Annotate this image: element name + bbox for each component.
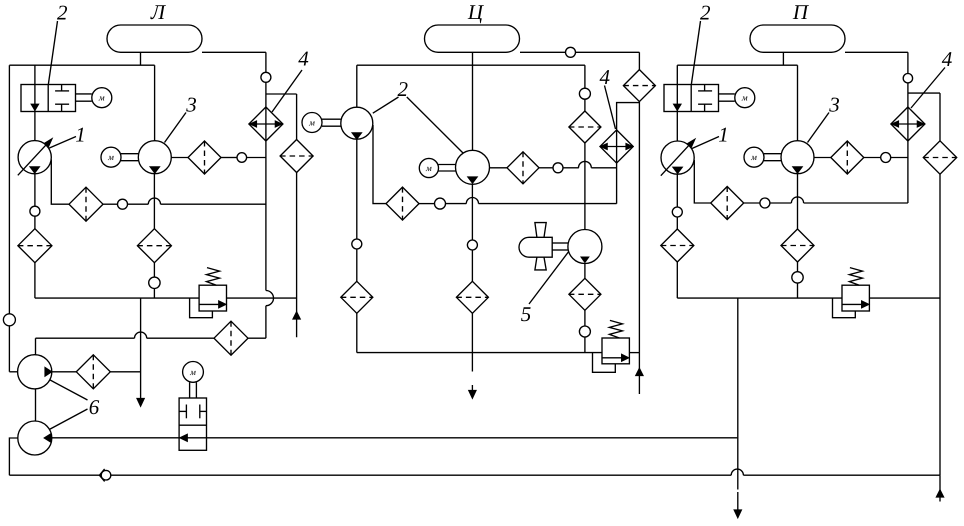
svg-text:3: 3 — [185, 93, 197, 117]
filter on main riser C — [623, 70, 655, 102]
port circle pump 3 drain — [149, 277, 160, 288]
bottom valve upper cell closed symbol — [185, 405, 187, 419]
relief bus P left part — [677, 297, 842, 299]
wire pump 6a to pump 6b — [35, 389, 37, 421]
wire filter to drain tee — [110, 371, 140, 373]
bottom valve lower cell flow arrow — [179, 437, 206, 439]
wire filter riser P down to return bus — [939, 174, 941, 475]
relief bus P right part — [869, 297, 940, 299]
component 4 reversing unit (left) — [249, 107, 283, 141]
valve 2 (right section) — [664, 85, 719, 112]
wire tank P right to main riser — [845, 51, 908, 53]
wire through component 4 (middle) — [616, 130, 618, 204]
wire filter to relief bus — [34, 263, 36, 298]
wire valve stem upper P — [676, 65, 678, 84]
port circle pump 1P drain — [672, 207, 682, 217]
branch to filter riser L — [266, 93, 297, 95]
shaft bottom valve to motor — [189, 382, 191, 398]
filter on pump 2b output — [507, 152, 539, 184]
valve 2 (left section) — [21, 85, 76, 112]
valve 2 left cell flow line with arrow — [34, 85, 36, 112]
component 4 reversing unit (middle) — [600, 130, 633, 163]
wire top frame edge P — [677, 64, 797, 66]
wire pump 3 drain — [153, 174, 155, 229]
filter below motor 5 — [569, 278, 601, 310]
wire tank L right to main riser — [202, 51, 266, 53]
wire pump 2a top — [356, 65, 358, 107]
leader line label 4 (middle) — [605, 86, 616, 130]
wire circle to main riser P — [891, 157, 908, 159]
wire circle to hop — [770, 202, 792, 204]
motor of bottom valve — [183, 362, 204, 383]
motor of pump 3 — [101, 147, 121, 167]
wire hop to component 4 stem — [479, 203, 617, 205]
drain line L from bus — [140, 298, 142, 398]
svg-text:м: м — [308, 118, 315, 128]
wire circle to filter — [34, 216, 36, 229]
motor of valve 2P — [735, 88, 755, 108]
svg-text:6: 6 — [89, 395, 100, 419]
svg-text:4: 4 — [298, 47, 309, 71]
wire pump 1P drain down — [676, 174, 678, 207]
relief valve middle section — [602, 338, 629, 364]
leader line label 6 to pump 6a — [50, 380, 88, 400]
wire pump 6b left elbow down — [9, 438, 17, 475]
drain arrow C — [471, 385, 473, 391]
pump 3 — [138, 141, 171, 174]
up arrow on suction stub L — [293, 312, 300, 319]
leader line label 3P — [808, 113, 830, 143]
port circle on tank C line — [566, 47, 576, 57]
wire pump 2a right side down — [373, 125, 386, 204]
port circle below motor 5 — [579, 326, 590, 337]
leader label 2 to pump 2a — [373, 97, 399, 113]
pump 1 (right, variable displacement) — [661, 141, 694, 174]
port circle on left frame — [3, 314, 15, 326]
pump 2a — [341, 107, 373, 139]
check valve on return bus — [101, 470, 111, 480]
shaft fan to motor 5 — [552, 242, 568, 244]
motor of pump 2b — [419, 158, 438, 177]
wire pump 1 drain down — [34, 174, 36, 206]
leader line label 5 — [529, 251, 569, 304]
main riser C top — [638, 52, 640, 69]
wire tank L to frame — [140, 52, 142, 65]
wire filter to circle — [864, 157, 881, 159]
variable arrow of pump 1 — [18, 141, 50, 175]
hop main riser over relief bus — [266, 291, 274, 306]
drain line P from bus to bottom — [737, 298, 739, 489]
long return bus right — [743, 474, 939, 476]
hop over pump 3P drain — [791, 197, 803, 203]
wire filter to circle — [419, 203, 435, 205]
long return bus lower left — [9, 474, 101, 476]
shaft pump 2a motor — [322, 118, 341, 120]
wire filter to fan motor — [584, 143, 586, 230]
component 5 fan drive motor — [568, 230, 602, 264]
svg-text:5: 5 — [521, 302, 532, 326]
top frame edge C — [357, 64, 585, 66]
relief bus L left part — [35, 297, 199, 299]
wire top edge to pump 3 — [154, 65, 156, 141]
pump 2b — [456, 150, 490, 184]
wire filter to circle — [539, 167, 553, 169]
shaft pump 3P motor — [764, 153, 781, 155]
wire hop to main riser — [161, 203, 266, 205]
filter on pump 6a output — [76, 355, 110, 389]
branch to component 4 (middle) — [617, 103, 640, 130]
wire circle to bus P — [797, 283, 799, 298]
svg-text:1: 1 — [718, 123, 729, 147]
wire hop to component 4 stem — [591, 167, 616, 169]
filter on pump 2a output — [386, 187, 419, 220]
leader line label 2 — [48, 21, 57, 84]
svg-text:м: м — [107, 152, 114, 162]
wire filter to circle — [584, 310, 586, 326]
filter on pump 2b drain — [456, 281, 488, 313]
svg-text:2: 2 — [57, 1, 68, 25]
variable arrow of pump 1P — [661, 142, 693, 176]
svg-text:Л: Л — [150, 0, 167, 24]
port circle on pump 1 drain — [30, 206, 40, 216]
wire pump 2b drain — [471, 184, 473, 240]
port circle pump 3P output — [881, 153, 891, 163]
filter on pump 3P output — [831, 141, 864, 174]
wire filter to relief bus P — [676, 262, 678, 298]
port circle pump 1P output — [760, 198, 770, 208]
wire filter to circle — [221, 157, 237, 159]
port circle pump 2b output — [553, 163, 563, 173]
wire hop to corner — [36, 337, 135, 339]
wire pump 2a drain down — [356, 139, 358, 239]
main riser P middle — [907, 83, 909, 203]
wire pump 3P drain — [797, 174, 799, 229]
leader line label 4 — [272, 70, 302, 112]
wire filter to circle — [744, 202, 760, 204]
drain arrow P — [734, 510, 741, 518]
filter on pump 1P drain — [661, 229, 694, 262]
port circle pump 3P drain — [792, 272, 803, 283]
wire top edge to pump 3P — [797, 65, 799, 141]
wire circle to bus C — [584, 337, 586, 353]
port circle mid riser C — [579, 88, 590, 99]
wire valve 2P to pump 1P — [676, 112, 678, 141]
leader line label 2P — [691, 21, 700, 84]
long suction bus upper — [52, 437, 738, 439]
filter on pump 1 drain — [18, 229, 52, 263]
shaft valve 2P to motor — [719, 93, 735, 95]
svg-text:м: м — [189, 367, 196, 377]
wire branch down to filter — [296, 94, 298, 140]
leader line label 6 to pump 6b — [50, 409, 88, 429]
pilot line of relief valve right section — [833, 298, 856, 318]
port circle pump 2a output — [435, 198, 446, 209]
wire tank C right part 2 — [576, 51, 640, 53]
wire filter to circle — [153, 263, 155, 277]
wire filter down to suction end — [296, 173, 298, 338]
hop over pump3 drain — [148, 198, 160, 204]
pump 6b — [18, 421, 52, 455]
wire circle to filter — [676, 217, 678, 229]
svg-text:3: 3 — [828, 93, 840, 117]
svg-text:4: 4 — [942, 47, 953, 71]
wire pump 6a output — [52, 371, 77, 373]
wire valve 2 to pump 1 — [34, 112, 36, 141]
wire filter to hop — [147, 337, 214, 339]
wire right mid riser C top — [584, 65, 586, 88]
leader line label 1P — [692, 137, 719, 149]
wire circle to filter — [584, 99, 586, 111]
wire circle to hop — [128, 203, 149, 205]
main riser L upper — [265, 52, 267, 72]
wire filter to port circle — [103, 203, 118, 205]
shaft valve 2 to motor — [76, 93, 92, 95]
wire main riser to cooler line corner — [265, 306, 267, 339]
wire circle to hop — [446, 203, 467, 205]
pilot line of relief valve middle section — [593, 353, 616, 373]
svg-text:м: м — [425, 163, 432, 173]
motor of pump 2a — [302, 113, 322, 133]
tank C (air reservoir) — [425, 25, 520, 52]
hop over pump 2b drain — [466, 197, 478, 203]
port circle on pump1 output line — [118, 199, 128, 209]
leader line label 3 — [165, 113, 187, 143]
filter on mid riser C — [569, 111, 601, 143]
filter on pump 1P output — [711, 187, 744, 220]
relief bus C left part — [357, 352, 602, 354]
wire filter to bus C — [356, 313, 358, 352]
svg-text:м: м — [750, 152, 757, 162]
shaft pump 3 motor — [121, 153, 138, 155]
main riser P upper — [907, 52, 909, 73]
wire circle to filter — [356, 249, 358, 281]
component 4 reversing unit (right) — [891, 107, 925, 141]
hop over drain line L — [135, 332, 147, 338]
filter on cooler return — [214, 321, 248, 355]
relief bus C right part — [629, 352, 639, 354]
relief valve right section — [842, 285, 869, 311]
motor of pump 3P — [744, 147, 764, 167]
stub frame to pump 6a — [9, 371, 17, 373]
svg-text:2: 2 — [700, 1, 711, 25]
spring of relief valve left section — [207, 268, 220, 286]
pilot line of relief valve left section — [190, 298, 213, 318]
svg-text:П: П — [792, 0, 810, 24]
wire circle to hop — [563, 167, 579, 169]
wire branch down to filter P — [939, 93, 941, 141]
port circle main riser P — [903, 74, 912, 83]
leader line label 4P — [911, 68, 945, 109]
relief bus L right part — [227, 297, 297, 299]
port circle main riser L — [261, 72, 271, 82]
valve 2 right cell closed symbol — [55, 90, 69, 92]
wire filter to circle — [797, 262, 799, 272]
tank P (air reservoir) — [750, 25, 845, 52]
filter on pump 3 output — [188, 141, 221, 174]
svg-text:м: м — [741, 93, 748, 103]
main riser C down to bus — [638, 102, 640, 353]
spring of relief valve right section — [849, 268, 862, 286]
valve 2P left cell flow line with arrow — [676, 85, 678, 112]
pump 3 (right) — [781, 141, 814, 174]
filter on branch riser P — [923, 141, 956, 174]
wire pump 1P right side down — [694, 160, 710, 203]
suction stub P with up arrow — [939, 475, 941, 501]
filter on pump 1 output — [69, 187, 103, 221]
port circle pump 2b drain — [467, 240, 477, 250]
wire pump 3P output — [814, 157, 831, 159]
leader line label 1 — [49, 137, 76, 149]
svg-text:м: м — [98, 93, 105, 103]
relief valve left section — [199, 285, 226, 311]
wire circle to filter — [471, 250, 473, 281]
suction stub C with up arrow — [638, 353, 640, 394]
hop return bus over drain — [731, 469, 743, 475]
filter on pump 2a drain — [341, 281, 373, 313]
wire circle to main riser — [247, 157, 266, 159]
wire valve stem upper L — [34, 65, 36, 84]
wire filter through bus to drain stub — [471, 313, 473, 371]
wire pump 2b output — [490, 167, 508, 169]
wire tank C down to pump 2b — [472, 52, 474, 150]
wire circle to bus — [153, 289, 155, 299]
long return bus middle — [111, 474, 731, 476]
svg-text:Ц: Ц — [467, 0, 485, 24]
leader label 2 to pump 2b — [407, 97, 463, 153]
drain arrow L — [137, 399, 144, 407]
bottom control valve — [179, 398, 206, 450]
port circle pump 3 output — [237, 153, 247, 163]
cooler return line L — [248, 337, 266, 339]
port circle pump 2a drain — [352, 239, 362, 249]
tank L (air reservoir) — [107, 25, 202, 52]
wire top frame edge L — [9, 64, 154, 66]
pump 6a — [18, 355, 52, 389]
wire tank P to frame — [782, 52, 784, 65]
fan of component 5 — [519, 237, 552, 257]
filter on branch riser L — [280, 140, 313, 173]
wire pump 1 right side down — [51, 160, 69, 205]
main riser L middle — [265, 82, 267, 290]
valve 2P right cell closed symbol — [698, 90, 712, 92]
hop pump 2b output over fan riser — [579, 161, 592, 167]
filter on pump 3P drain — [781, 229, 814, 262]
wire pump 3 output — [171, 157, 188, 159]
svg-text:1: 1 — [75, 123, 86, 147]
wire motor 5 down — [584, 264, 586, 279]
wire corner down to pump 6a — [35, 338, 37, 355]
wire left frame edge L — [8, 65, 10, 372]
wire hop to main riser P — [804, 202, 908, 204]
spring of relief valve middle section — [609, 320, 622, 338]
shaft pump 2b motor — [439, 164, 456, 166]
filter on pump 3 drain — [137, 229, 171, 263]
wire tank C right part 1 — [520, 51, 566, 53]
motor of valve 2 — [92, 88, 112, 108]
pump 1 (variable displacement) — [18, 141, 51, 174]
branch to filter riser P — [908, 92, 940, 94]
